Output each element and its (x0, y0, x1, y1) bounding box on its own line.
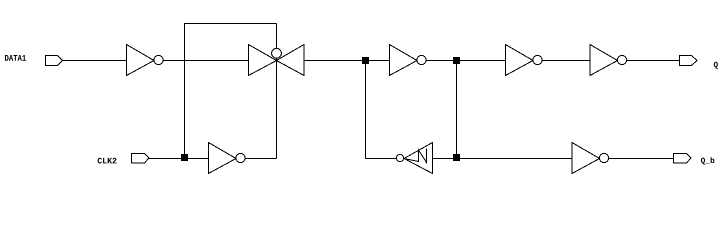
weak feedback inverter U8 (points left, W mark) (396, 143, 432, 174)
wire weak inverter input from node Mb (433, 158, 573, 160)
junction node M (latch input) (362, 57, 369, 64)
junction node Mb bottom (453, 154, 460, 161)
wire elbow to weak inverter bubble (366, 158, 397, 160)
label CLK2 (98, 158, 117, 164)
inverter U5 (Q buffer second) (590, 45, 627, 76)
wire node M down to weak inverter output (365, 61, 367, 159)
output port Q (680, 56, 698, 66)
wire CLK riser (vertical, crosses data wire) (184, 24, 186, 159)
wire U3 output to gate bottom (CLK_b) (245, 158, 277, 160)
output port Q_b (674, 154, 692, 164)
wire CLK2 port to U3 input (149, 158, 209, 160)
transmission gate U7 (249, 45, 305, 76)
inverter U6 (Q_b inverter) (572, 143, 609, 174)
inverter U3 (clock inverter) (209, 143, 246, 174)
wire top routing horizontal (184, 23, 277, 25)
wire U4 to U5 (542, 60, 590, 62)
input port CLK2 (132, 154, 150, 164)
inverter U1 (data input inverter) (127, 45, 164, 76)
wire down to transmission gate bubble (276, 24, 278, 49)
wire U2 output to node Mb (426, 60, 506, 62)
wire U1 output to transmission gate (163, 60, 249, 62)
label DATA1 (5, 55, 26, 61)
inverter U2 (latch forward inverter) (390, 45, 427, 76)
wire U6 to Q_b port (609, 158, 674, 160)
wire node Mb vertical (456, 61, 458, 159)
wire DATA1 port to U1 input (63, 60, 127, 62)
input port DATA1 (46, 56, 63, 66)
wire transmission gate output to U2 input (304, 60, 390, 62)
inverter U4 (Q buffer first) (506, 45, 543, 76)
label Q_b (701, 157, 715, 164)
junction CLK node (181, 154, 188, 161)
label Q (714, 62, 718, 69)
wire U5 to Q port (627, 60, 680, 62)
wire inverted-clock vertical through gate down to CLK_b elbow (276, 59, 278, 159)
junction node Mb top (453, 57, 460, 64)
